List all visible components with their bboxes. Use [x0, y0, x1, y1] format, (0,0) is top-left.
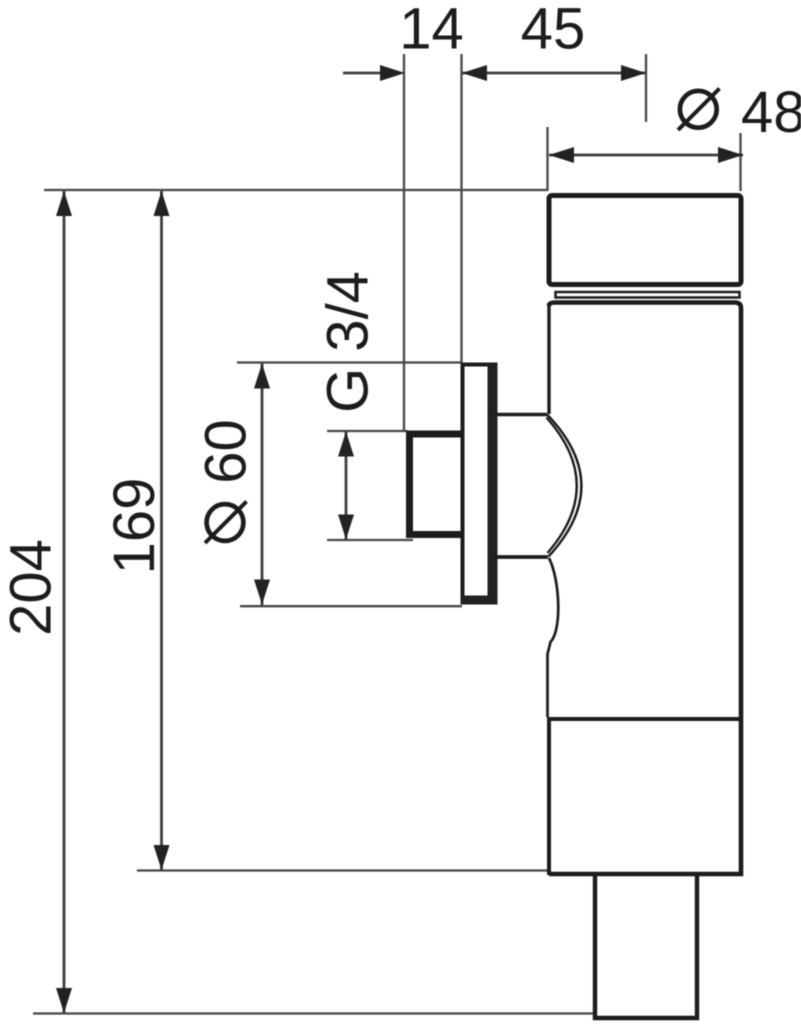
dimension text 45: [521, 0, 586, 62]
extension line y=1013.5 (pipe bottom, for dim 204): [33, 1012, 594, 1014]
ring between cap and body: [556, 292, 740, 298]
valve body outline: [549, 303, 741, 876]
dimension text Ø 60 (rotated): [194, 419, 259, 543]
outlet pipe: [595, 876, 697, 1018]
dimension text G 3/4 (rotated): [316, 271, 381, 413]
svg-text:G 3/4: G 3/4: [316, 271, 381, 413]
extension line y=362.5 (flange top, for dim Ø60): [237, 361, 461, 363]
extension line y=540 (socket bottom, for dim G3/4): [327, 539, 413, 541]
extension line y=870.5 (body bottom, for dim 169): [137, 869, 549, 871]
dimension text 169 (rotated): [102, 478, 167, 575]
dimension line Ø48 with arrows: [549, 147, 743, 163]
dimension line 204 with arrows: [56, 191, 72, 1013]
extension line y=431 (socket top, for dim G3/4): [327, 430, 407, 432]
body divider line: [547, 717, 741, 721]
dimension text Ø 48: [678, 80, 801, 145]
dimension line 169 with arrows: [154, 191, 170, 870]
extension line x=646 (body axis, for dim 45): [645, 54, 647, 122]
dimension line 45 with arrows: [462, 65, 646, 81]
extension line x=404 (socket face, for dim 14): [403, 54, 405, 430]
extension line x=461.5 (flange face, for dims 14/45): [460, 54, 462, 363]
G3/4 socket (threaded spigot): [410, 434, 462, 535]
dome top neck line: [495, 413, 548, 417]
extension line x=547.5 (cap left, for dim Ø48): [546, 127, 548, 191]
svg-text:60: 60: [194, 419, 259, 484]
svg-text:14: 14: [399, 0, 464, 62]
extension line y=606.2 (flange bottom, for dim Ø60): [240, 605, 462, 607]
lower bump curve on body left edge: [548, 558, 559, 717]
dimension line G3/4 with arrows: [338, 431, 354, 540]
svg-text:169: 169: [102, 478, 167, 575]
leader arrow into dim 14 (from left): [343, 65, 405, 81]
valve top cap outline: [549, 196, 741, 285]
svg-text:204: 204: [0, 539, 64, 636]
dimension text 204 (rotated): [0, 539, 64, 636]
dome inner arc: [547, 418, 577, 554]
svg-text:45: 45: [521, 0, 586, 62]
dimension text 14: [399, 0, 464, 62]
wall flange (rosette) outline: [461, 364, 498, 604]
extension line x=740.5 (cap right, for dim Ø48): [739, 133, 741, 191]
dimension line Ø60 with arrows: [254, 363, 270, 605]
dome bottom neck line: [495, 555, 549, 559]
extension line y=190 (top datum, for dims 169/204): [44, 189, 548, 191]
svg-text:48: 48: [741, 80, 801, 145]
dome outer arc: [547, 415, 581, 557]
